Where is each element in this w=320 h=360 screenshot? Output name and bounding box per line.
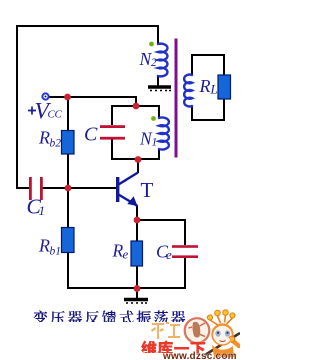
wire tank bottom bbox=[112, 158, 159, 160]
watermark mascot stamp bbox=[185, 318, 210, 343]
wire base lead bbox=[68, 187, 116, 189]
ground N2 bbox=[148, 87, 171, 91]
wire Rb2 bottom bbox=[67, 153, 69, 188]
svg-text:C: C bbox=[84, 123, 98, 145]
node base / C1 / Rb1 bbox=[65, 185, 72, 192]
wire top rail bbox=[16, 25, 158, 27]
wire RL loop bbox=[192, 55, 224, 120]
wire Rb1 top bbox=[67, 188, 69, 228]
wire C1 to base node bbox=[43, 187, 69, 189]
resistor Re bbox=[131, 241, 143, 266]
node Vcc rail / Rb2 bbox=[64, 94, 71, 101]
transistor T bbox=[116, 173, 138, 207]
label RL bbox=[199, 76, 218, 97]
label Ce bbox=[156, 241, 172, 261]
wire tank left lower bbox=[111, 140, 113, 161]
wire Vcc rail bbox=[46, 96, 136, 98]
ground main bbox=[124, 288, 148, 303]
capacitor C plates bbox=[100, 125, 125, 139]
wire Vcc rail drop bbox=[135, 96, 137, 106]
wire emitter to Ce bbox=[137, 219, 185, 221]
phase dot N1 bbox=[151, 116, 156, 121]
wire N1 top lead bbox=[158, 105, 160, 118]
label Rb1 bbox=[38, 236, 61, 258]
wire Ce bottom lead bbox=[184, 258, 186, 289]
svg-text:b2: b2 bbox=[50, 138, 62, 150]
node ground rail bbox=[134, 285, 141, 292]
svg-text:www.dzsc.com: www.dzsc.com bbox=[162, 351, 237, 360]
node collector / tank bottom bbox=[135, 156, 142, 163]
label C1 bbox=[27, 194, 46, 218]
wire Re bottom bbox=[136, 265, 138, 288]
svg-text:e: e bbox=[166, 247, 172, 262]
capacitor Ce plates bbox=[172, 245, 198, 258]
resistor Rb1 bbox=[62, 228, 75, 253]
svg-text:R: R bbox=[38, 236, 50, 256]
wire N2 bottom lead bbox=[157, 75, 159, 86]
node tank top bbox=[133, 103, 140, 110]
phase dot N2 bbox=[149, 42, 154, 47]
wire tank top bbox=[112, 105, 159, 107]
svg-text:2: 2 bbox=[151, 57, 157, 69]
wire left to C1 bbox=[16, 187, 29, 189]
resistor Rb2 bbox=[62, 131, 75, 155]
svg-text:CC: CC bbox=[48, 109, 63, 121]
wire collector lead bbox=[137, 159, 139, 173]
wire Re top bbox=[136, 220, 138, 242]
svg-text:T: T bbox=[141, 178, 154, 202]
wire Ce top lead bbox=[184, 219, 186, 245]
secondary winding bbox=[184, 75, 192, 107]
svg-text:R: R bbox=[38, 128, 50, 148]
wire emitter lead bbox=[136, 205, 138, 221]
node emitter / Re / Ce bbox=[134, 217, 141, 224]
capacitor C1 plates bbox=[29, 177, 43, 200]
label N1 bbox=[139, 129, 157, 149]
svg-text:L: L bbox=[210, 82, 218, 97]
label Rb2 bbox=[38, 128, 61, 150]
svg-text:1: 1 bbox=[39, 203, 46, 218]
watermark text 维库一下 bbox=[141, 341, 205, 354]
wire N2 top lead bbox=[157, 25, 159, 44]
watermark mascot bbox=[205, 310, 240, 357]
wire bottom rail bbox=[67, 287, 186, 289]
wire N1 bottom lead bbox=[158, 149, 160, 160]
Vcc terminal bbox=[42, 93, 48, 99]
svg-text:R: R bbox=[199, 76, 211, 96]
svg-text:b1: b1 bbox=[50, 246, 62, 258]
transformer core bbox=[175, 39, 178, 158]
svg-text:1: 1 bbox=[152, 137, 158, 149]
title text 变压器反馈式振荡器 bbox=[34, 311, 186, 323]
resistor RL bbox=[218, 75, 231, 99]
inductor N1 winding bbox=[159, 118, 169, 150]
label Re bbox=[112, 240, 129, 261]
watermark orange chars bbox=[151, 322, 180, 339]
svg-text:e: e bbox=[123, 247, 129, 262]
label +Vcc bbox=[28, 99, 63, 125]
wire Rb1 bottom bbox=[67, 252, 69, 289]
inductor N2 winding bbox=[158, 44, 167, 77]
label N2 bbox=[139, 49, 158, 69]
wire tank left upper bbox=[111, 105, 113, 125]
wire Rb2 top bbox=[67, 97, 69, 131]
wire left side bbox=[16, 25, 18, 188]
